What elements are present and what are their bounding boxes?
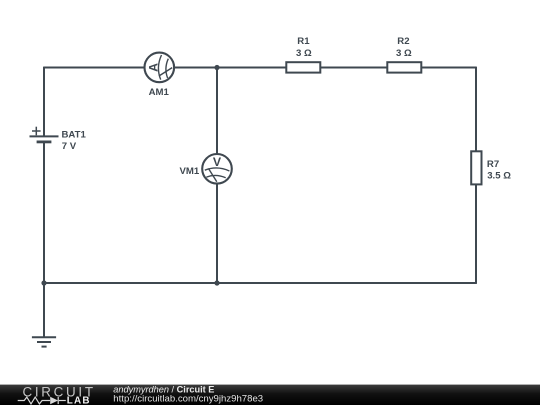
svg-text:3.5 Ω: 3.5 Ω bbox=[487, 171, 511, 182]
svg-text:R7: R7 bbox=[487, 159, 499, 170]
resistor R2 bbox=[387, 62, 421, 72]
wire left vertical lower bbox=[43, 142, 45, 283]
ammeter AM1 bbox=[145, 53, 175, 83]
junction node bottom left bbox=[41, 280, 46, 285]
wire bottom horizontal bbox=[44, 282, 476, 284]
svg-text:3 Ω: 3 Ω bbox=[396, 48, 412, 59]
wire right vertical lower bbox=[475, 184, 477, 284]
svg-text:V: V bbox=[213, 155, 222, 169]
logo diode triangle bbox=[50, 397, 58, 405]
svg-text:BAT1: BAT1 bbox=[62, 130, 87, 141]
svg-text:R1: R1 bbox=[297, 36, 310, 47]
wire middle vertical upper bbox=[216, 68, 218, 156]
resistor R1 bbox=[286, 62, 320, 72]
junction node bottom middle bbox=[214, 280, 219, 285]
wire left vertical upper bbox=[43, 67, 45, 136]
svg-text:R2: R2 bbox=[397, 36, 409, 47]
battery BAT1 bbox=[30, 127, 59, 142]
voltmeter VM1 bbox=[202, 154, 232, 184]
svg-text:LAB: LAB bbox=[67, 395, 91, 405]
footer bar bbox=[0, 385, 540, 405]
junction node top middle bbox=[214, 65, 219, 70]
logo resistor-diode squiggle bbox=[18, 397, 66, 404]
svg-text:7 V: 7 V bbox=[62, 141, 77, 152]
wire right vertical upper bbox=[475, 67, 477, 152]
svg-text:A: A bbox=[146, 63, 160, 72]
ground bbox=[32, 337, 56, 346]
resistor R7 bbox=[471, 151, 481, 184]
svg-text:3 Ω: 3 Ω bbox=[296, 48, 312, 59]
svg-text:AM1: AM1 bbox=[149, 87, 170, 98]
svg-text:VM1: VM1 bbox=[179, 166, 199, 177]
wire top horizontal bbox=[44, 67, 476, 69]
wire middle vertical lower bbox=[216, 183, 218, 283]
svg-text:http://circuitlab.com/cny9jhz9: http://circuitlab.com/cny9jhz9h78e3 bbox=[113, 394, 263, 405]
wire ground stub bbox=[43, 283, 45, 337]
